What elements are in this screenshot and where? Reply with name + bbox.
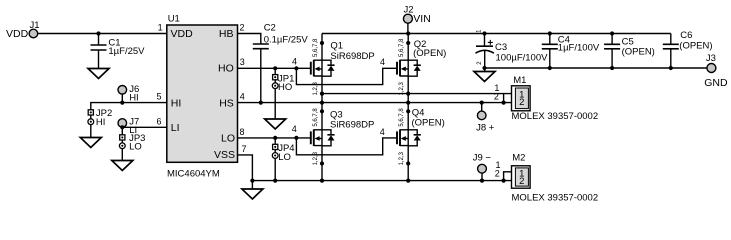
junction C4/GND bbox=[548, 66, 552, 70]
ground VSS bbox=[242, 189, 263, 199]
junction C4/VIN bbox=[548, 31, 552, 35]
svg-text:4: 4 bbox=[292, 56, 297, 66]
wire bottom VSS rail to M2 pin 2 bbox=[252, 180, 511, 182]
capacitor C5 (OPEN) bbox=[604, 34, 655, 69]
svg-text:J3: J3 bbox=[706, 53, 716, 64]
capacitor C6 (OPEN) bbox=[663, 30, 713, 68]
junction Q3 drain pin bbox=[320, 109, 324, 113]
svg-text:1,2,3: 1,2,3 bbox=[399, 81, 405, 95]
svg-text:VDD: VDD bbox=[6, 28, 29, 40]
svg-text:HO: HO bbox=[278, 82, 292, 93]
op-amp U1 MIC4604YM driver IC bbox=[167, 14, 238, 180]
junction J7/LI bbox=[120, 125, 124, 129]
svg-text:(OPEN): (OPEN) bbox=[413, 48, 446, 59]
junction C6/GND bbox=[669, 66, 673, 70]
svg-text:5: 5 bbox=[156, 92, 161, 102]
svg-text:SiR698DP: SiR698DP bbox=[330, 51, 374, 62]
wire VDD rail J1 to U1 pin 1 bbox=[38, 33, 167, 35]
transistor Q4 (OPEN) bbox=[380, 107, 445, 165]
junction Q1 source pin bbox=[320, 92, 324, 96]
node VIN rail bbox=[322, 33, 671, 35]
svg-text:2: 2 bbox=[240, 23, 245, 33]
svg-text:5,6,7,8: 5,6,7,8 bbox=[313, 108, 319, 127]
svg-text:Q1: Q1 bbox=[330, 40, 343, 51]
svg-text:HI: HI bbox=[171, 97, 182, 109]
junction J9 bbox=[480, 179, 484, 183]
junction JP1/HO bbox=[273, 66, 277, 70]
wire LO feed to Q4 gate bbox=[296, 138, 396, 155]
svg-text:0.1µF/25V: 0.1µF/25V bbox=[264, 34, 309, 45]
junction C1/VDD bbox=[96, 31, 100, 35]
connector J1 bbox=[29, 20, 39, 38]
junction Q4 source pin bbox=[406, 161, 410, 165]
svg-text:8: 8 bbox=[240, 127, 245, 137]
svg-text:GND: GND bbox=[704, 77, 728, 89]
junction C3/GND rail bbox=[482, 66, 486, 70]
ground C3 bbox=[474, 72, 495, 82]
wire J6 stub bbox=[121, 94, 123, 103]
svg-text:LO: LO bbox=[221, 133, 235, 145]
wire VSS U1 pin7 to ground rail bbox=[238, 155, 253, 181]
svg-text:6: 6 bbox=[156, 116, 161, 126]
transistor Q1 SiR698DP bbox=[292, 38, 375, 96]
transistor Q3 SiR698DP bbox=[292, 108, 375, 166]
svg-text:2: 2 bbox=[494, 91, 499, 101]
wire HO feed to Q2 gate bbox=[296, 68, 396, 84]
connector J3 bbox=[704, 53, 728, 89]
junction M1 riser bbox=[502, 101, 506, 105]
svg-text:1,2,3: 1,2,3 bbox=[313, 151, 319, 165]
wire HO U1 pin3 to Q1 gate bbox=[238, 67, 311, 69]
svg-text:2: 2 bbox=[519, 176, 524, 187]
connector M1 MOLEX 39357-0002 bbox=[494, 75, 598, 122]
svg-text:MOLEX 39357-0002: MOLEX 39357-0002 bbox=[512, 111, 599, 122]
jumper JP2 bbox=[88, 108, 112, 138]
svg-text:5,6,7,8: 5,6,7,8 bbox=[313, 38, 319, 57]
junction VSS rail corner bbox=[250, 179, 254, 183]
wire HB U1 pin2 to C2 bbox=[238, 34, 261, 45]
connector J6 bbox=[118, 84, 139, 104]
svg-text:M1: M1 bbox=[513, 75, 526, 86]
ground JP1 bbox=[265, 119, 286, 129]
svg-text:4: 4 bbox=[240, 92, 245, 102]
svg-text:MIC4604YM: MIC4604YM bbox=[167, 169, 220, 180]
wire switch node upper to M1 pin 1 bbox=[322, 93, 512, 95]
ground JP2 bbox=[80, 138, 101, 148]
svg-text:4: 4 bbox=[292, 124, 297, 134]
connector J9 bbox=[473, 152, 492, 180]
svg-text:U1: U1 bbox=[168, 14, 180, 25]
capacitor C4 1uF/100V bbox=[542, 34, 600, 69]
connector J7 bbox=[118, 116, 139, 135]
junction J8 bbox=[480, 101, 484, 105]
node GND rail bbox=[485, 67, 707, 69]
wire J2 to VIN rail bbox=[407, 23, 409, 33]
svg-text:1µF/100V: 1µF/100V bbox=[558, 43, 600, 54]
svg-text:7: 7 bbox=[242, 144, 247, 154]
wire LO U1 pin8 to Q3 gate bbox=[238, 137, 311, 139]
jumper JP1 bbox=[272, 68, 294, 119]
junction JP4/LO bbox=[273, 136, 277, 140]
junction Q3 source pin bbox=[320, 161, 324, 165]
junction Q2 drain pin bbox=[406, 41, 410, 45]
svg-text:HS: HS bbox=[219, 97, 234, 109]
svg-text:VSS: VSS bbox=[214, 149, 235, 161]
svg-text:HO: HO bbox=[218, 63, 234, 75]
connector J8 bbox=[476, 103, 495, 134]
junction C5/GND bbox=[610, 66, 614, 70]
junction Q2 source pin bbox=[406, 92, 410, 96]
junction switch node Q2/Q4 bbox=[406, 101, 410, 105]
svg-text:C2: C2 bbox=[264, 22, 276, 33]
svg-text:1µF/25V: 1µF/25V bbox=[108, 46, 145, 57]
svg-text:4: 4 bbox=[380, 127, 385, 137]
junction Q4 drain pin bbox=[406, 109, 410, 113]
svg-text:M2: M2 bbox=[512, 152, 525, 163]
wire HS main U1 pin4 to M1 pin 2 bbox=[238, 102, 512, 104]
jumper JP4 bbox=[272, 138, 294, 181]
svg-text:100µF/100V: 100µF/100V bbox=[496, 53, 549, 64]
svg-text:5,6,7,8: 5,6,7,8 bbox=[399, 38, 405, 57]
jumper JP3 bbox=[119, 127, 145, 160]
svg-text:1,2,3: 1,2,3 bbox=[313, 81, 319, 95]
svg-text:LI: LI bbox=[171, 122, 180, 134]
connector M2 MOLEX 39357-0002 bbox=[495, 152, 598, 203]
junction C2/HS bbox=[259, 101, 263, 105]
wire VSS ground stub bbox=[251, 181, 253, 189]
junction JP4 rail bbox=[273, 179, 277, 183]
wire C2 to HS bbox=[260, 49, 262, 103]
junction Q4 source rail bbox=[406, 179, 410, 183]
svg-text:(OPEN): (OPEN) bbox=[412, 117, 445, 128]
wire LI U1 pin6 to J7/JP3 bbox=[122, 126, 167, 128]
svg-text:(OPEN): (OPEN) bbox=[679, 40, 712, 51]
transistor Q2 (OPEN) bbox=[380, 38, 446, 96]
svg-text:MOLEX 39357-0002: MOLEX 39357-0002 bbox=[512, 193, 599, 204]
junction M2 riser bbox=[502, 179, 506, 183]
svg-text:1,2,3: 1,2,3 bbox=[399, 151, 405, 165]
capacitor C2 bbox=[253, 22, 309, 48]
connector J2 bbox=[403, 4, 430, 25]
svg-text:J8 +: J8 + bbox=[476, 122, 495, 133]
svg-text:LO: LO bbox=[129, 141, 142, 152]
wire M2 pin1 riser bbox=[504, 172, 512, 181]
svg-text:HB: HB bbox=[219, 28, 234, 40]
svg-text:SiR698DP: SiR698DP bbox=[330, 120, 374, 131]
junction C3/VIN bbox=[482, 31, 486, 35]
ground C1 bbox=[88, 69, 109, 79]
junction LO gate tee bbox=[294, 136, 298, 140]
svg-text:C3: C3 bbox=[495, 42, 507, 53]
ground JP3 bbox=[112, 161, 133, 171]
junction switch node Q1/Q3 bbox=[320, 101, 324, 105]
capacitor C1 bbox=[91, 34, 146, 69]
svg-text:1: 1 bbox=[158, 23, 163, 33]
svg-text:J9 −: J9 − bbox=[473, 152, 492, 163]
svg-text:LO: LO bbox=[278, 152, 291, 163]
wire M1 riser bbox=[503, 94, 505, 103]
junction Q3 source rail bbox=[320, 179, 324, 183]
svg-text:3: 3 bbox=[240, 57, 245, 67]
svg-text:2: 2 bbox=[495, 168, 500, 178]
svg-text:VDD: VDD bbox=[171, 28, 194, 40]
junction J2/VIN bbox=[406, 31, 410, 35]
junction HO gate tee bbox=[294, 66, 298, 70]
capacitor C3 100uF/100V bbox=[476, 29, 549, 72]
wire HI U1 pin5 to JP2 bbox=[91, 103, 167, 110]
wire switch-node vertical Q2/Q4 bbox=[407, 34, 409, 181]
svg-text:VIN: VIN bbox=[413, 13, 431, 25]
svg-text:2: 2 bbox=[519, 97, 524, 108]
junction C5/VIN bbox=[610, 31, 614, 35]
wire switch-node vertical Q1/Q3 bbox=[321, 34, 323, 181]
svg-text:HI: HI bbox=[96, 117, 106, 128]
junction J6/HI bbox=[120, 101, 124, 105]
svg-text:(OPEN): (OPEN) bbox=[622, 47, 655, 58]
junction Q1 drain pin bbox=[320, 41, 324, 45]
svg-text:5,6,7,8: 5,6,7,8 bbox=[399, 108, 405, 127]
svg-text:4: 4 bbox=[380, 57, 385, 67]
